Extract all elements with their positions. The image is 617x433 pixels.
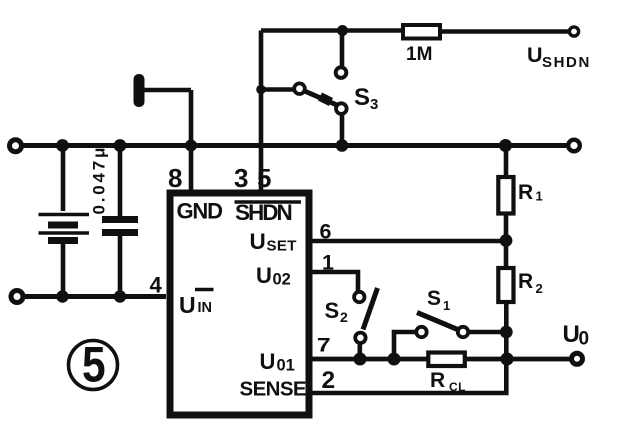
svg-text:0.047μ: 0.047μ	[90, 145, 109, 215]
svg-text:6: 6	[320, 220, 332, 244]
label R1	[518, 181, 543, 204]
svg-text:IN: IN	[198, 300, 213, 316]
svg-text:SET: SET	[267, 238, 297, 255]
label UIN	[179, 292, 212, 318]
node S3 top	[337, 25, 348, 36]
label pin 3	[234, 163, 248, 193]
label 1M	[406, 44, 432, 65]
node S1 left	[388, 353, 401, 366]
switch S1	[394, 313, 506, 360]
svg-text:4: 4	[150, 273, 163, 298]
svg-text:1: 1	[443, 298, 450, 313]
label SHDN	[235, 200, 292, 225]
label S1	[427, 287, 450, 313]
label pin 6	[320, 220, 332, 244]
svg-text:3: 3	[370, 96, 378, 113]
label GND	[177, 199, 223, 224]
svg-text:S: S	[427, 287, 441, 310]
node R1 top	[499, 139, 512, 152]
label USHDN	[527, 43, 591, 71]
svg-text:U: U	[563, 321, 580, 348]
svg-text:SHDN: SHDN	[542, 54, 591, 71]
figure number 5	[69, 341, 118, 390]
resistor RCL	[428, 353, 465, 367]
svg-text:GND: GND	[177, 199, 223, 224]
label R2	[518, 270, 543, 296]
tab connector	[134, 74, 192, 195]
overline SHDN	[235, 200, 302, 204]
svg-text:3: 3	[234, 163, 248, 193]
svg-text:S: S	[325, 298, 340, 323]
label 0.047u	[90, 145, 109, 215]
svg-text:U: U	[260, 349, 276, 374]
wire shutdown top	[261, 31, 570, 196]
wire output line	[312, 357, 571, 362]
terminal top left	[10, 140, 22, 152]
terminal bottom left	[11, 291, 23, 303]
svg-text:U: U	[527, 43, 543, 67]
svg-text:1M: 1M	[406, 44, 432, 65]
label U02	[256, 263, 291, 289]
overline UIN	[195, 288, 214, 292]
svg-text:02: 02	[273, 271, 291, 289]
svg-text:5: 5	[257, 163, 271, 193]
node R2 bottom	[500, 326, 513, 339]
node uset	[500, 234, 513, 247]
svg-text:U: U	[179, 292, 196, 318]
terminal U0	[572, 353, 583, 364]
label RCL	[430, 369, 466, 394]
svg-text:1: 1	[322, 251, 334, 275]
svg-text:R: R	[518, 181, 533, 204]
node S3 bottom	[336, 139, 349, 152]
node S3 pole	[256, 85, 266, 95]
node cap bottom	[114, 290, 126, 302]
label pin 1	[322, 251, 334, 275]
label pin 7	[317, 334, 331, 356]
label pin 2	[322, 367, 336, 394]
resistor 1M	[403, 25, 440, 39]
svg-text:7: 7	[317, 334, 331, 356]
label S2	[325, 298, 349, 325]
svg-text:1: 1	[536, 189, 543, 204]
svg-text:R: R	[518, 270, 533, 293]
label pin 8	[168, 163, 182, 193]
wire top rail	[18, 143, 569, 148]
svg-text:S: S	[354, 84, 370, 111]
label pin 5	[257, 163, 271, 193]
svg-text:2: 2	[536, 281, 543, 296]
label U0	[563, 321, 590, 350]
terminal top right	[568, 140, 580, 152]
label U01	[260, 349, 295, 375]
svg-text:U: U	[250, 229, 266, 254]
svg-text:01: 01	[277, 357, 295, 375]
svg-text:U: U	[256, 263, 272, 288]
resistor R2	[498, 241, 513, 359]
wire pin6 uset	[312, 239, 506, 244]
switch S3	[261, 34, 347, 146]
label S3	[354, 84, 378, 113]
node S2 bottom	[354, 353, 367, 366]
resistor R1	[498, 146, 513, 241]
terminal USHDN	[569, 27, 578, 36]
node output	[500, 352, 513, 365]
label SENSE	[240, 378, 307, 401]
node pin8 rail	[185, 140, 197, 152]
figure digit 5	[82, 336, 106, 392]
wire pin4 rail	[20, 294, 166, 299]
svg-text:SENSE: SENSE	[240, 378, 307, 401]
node battery bottom	[56, 290, 68, 302]
svg-text:2: 2	[322, 367, 336, 394]
label USET	[250, 229, 297, 255]
svg-text:5: 5	[82, 336, 106, 392]
wire sense loop	[312, 359, 506, 393]
svg-text:2: 2	[340, 309, 348, 325]
svg-text:8: 8	[168, 163, 182, 193]
label pin 4	[150, 273, 163, 298]
op-amp IC body	[170, 193, 309, 415]
switch S2	[312, 272, 378, 359]
capacitor 0.047u	[102, 146, 138, 297]
node cap top	[114, 139, 127, 152]
node battery top	[56, 139, 69, 152]
battery B1	[39, 146, 90, 297]
svg-text:R: R	[430, 369, 445, 392]
svg-text:0: 0	[579, 329, 590, 350]
